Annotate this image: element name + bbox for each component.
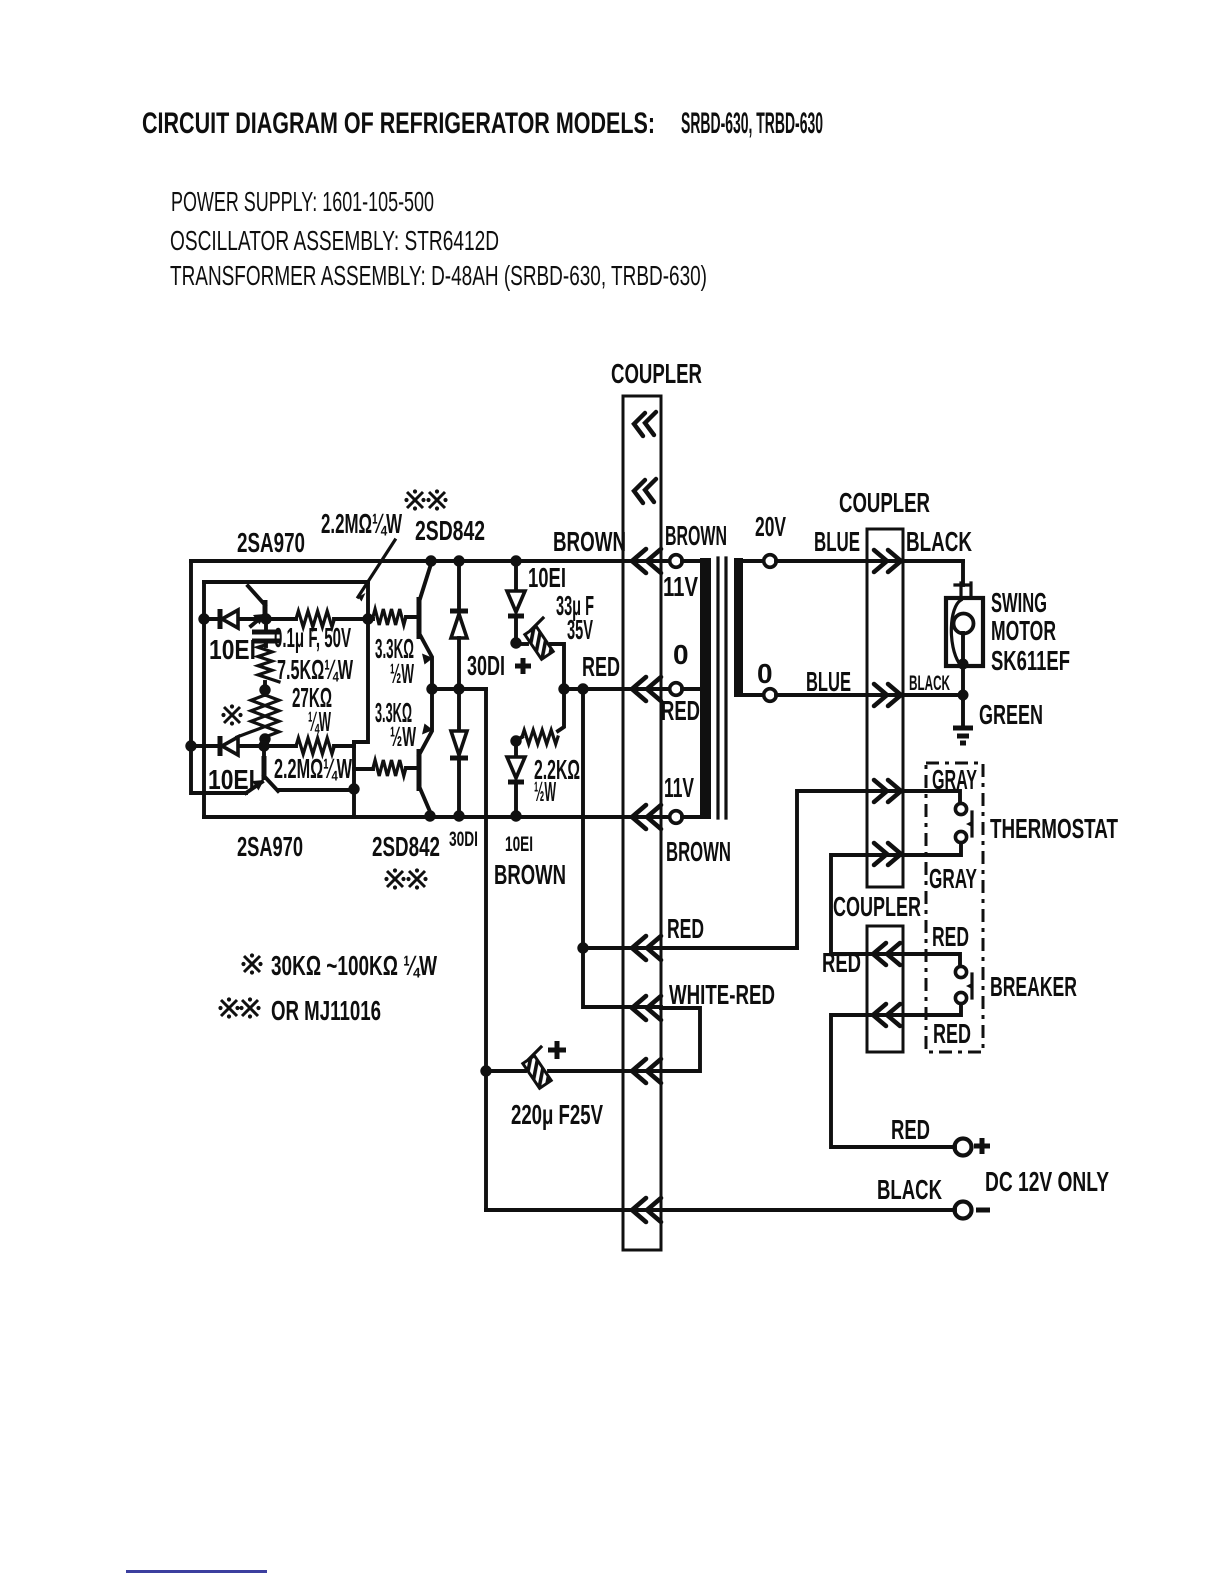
pin circle 0 RED (670, 683, 683, 696)
node dot D5 bottom (453, 683, 464, 694)
wire GRAY bottom (831, 843, 961, 966)
svg-text:RED: RED (933, 1018, 971, 1049)
callout line for 2.2M label (358, 540, 395, 597)
motor M1 body (946, 598, 983, 666)
diode D1 10E1 (upper left) cathode bar (218, 609, 223, 629)
svg-text:RED: RED (667, 913, 704, 944)
transistor Q4 emitter arrow (422, 724, 433, 735)
label kome-kome top (404, 489, 425, 510)
svg-text:BROWN: BROWN (494, 859, 566, 890)
svg-text:10EI: 10EI (505, 833, 533, 856)
transistor Q2 base bar (262, 756, 267, 780)
svg-text:2SA970: 2SA970 (237, 527, 305, 558)
wire C3 to coupler pin (549, 1069, 661, 1073)
svg-text:¼W: ¼W (308, 706, 331, 737)
wire RED lower to coupler (583, 946, 661, 950)
resistor R2 2.2M 1/4W (lower) (296, 738, 334, 754)
wire Q2 collector to x354 (278, 788, 354, 792)
node dot cross vertical (362, 613, 373, 624)
node dots top/bottom rail at Q3/Q4 (425, 555, 436, 566)
node dot collector junction (348, 783, 359, 794)
wire RED mid to coupler (562, 687, 670, 691)
terminal DC plus (955, 1139, 972, 1156)
svg-text:DC 12V ONLY: DC 12V ONLY (985, 1166, 1109, 1197)
wire WHITE-RED U loop right of coupler (661, 1008, 700, 1071)
wire D6 to bottom rail (457, 758, 461, 817)
node dot below 7.5K (259, 684, 270, 695)
resistor R3 7.5K vertical zigzag (258, 645, 279, 682)
svg-text:2.2MΩ¼W: 2.2MΩ¼W (274, 753, 352, 784)
node dot D4 bottom (510, 810, 521, 821)
thermostat S1 contact circles (955, 803, 966, 814)
svg-text:OR MJ11016: OR MJ11016 (271, 995, 381, 1026)
svg-text:CIRCUIT DIAGRAM OF REFRIGERATO: CIRCUIT DIAGRAM OF REFRIGERATOR MODELS: (142, 107, 655, 140)
thermostat actuator (970, 812, 973, 836)
svg-text:GREEN: GREEN (979, 699, 1043, 730)
wire bottom rail (BROWN 11V) (204, 815, 670, 819)
svg-text:TRANSFORMER ASSEMBLY: D-48AH (: TRANSFORMER ASSEMBLY: D-48AH (SRBD-630, … (170, 260, 707, 291)
svg-text:10EI: 10EI (528, 562, 566, 593)
transistor Q2 emitter lead (246, 782, 262, 793)
node dot emitters (426, 683, 437, 694)
node dot D3 top (510, 555, 521, 566)
label kome-kome bottom (384, 868, 405, 889)
svg-text:BROWN: BROWN (666, 836, 731, 867)
motor brush marks (955, 583, 971, 598)
wire R7 node to D4 (514, 741, 518, 757)
wire left outer vertical (191, 561, 246, 793)
wire RED lower right of coupler (661, 946, 797, 950)
svg-text:30DI: 30DI (467, 650, 505, 681)
label kome mid left (221, 704, 242, 725)
svg-text:BROWN: BROWN (665, 520, 727, 551)
node dot C3 left (480, 1065, 491, 1076)
plus sign for C3 (548, 1041, 566, 1059)
svg-text:10EI: 10EI (208, 764, 255, 795)
svg-text:35V: 35V (567, 614, 593, 645)
diode D4 10E1 cathode bar (508, 780, 524, 785)
breaker actuator (970, 974, 973, 998)
svg-text:10EI: 10EI (209, 634, 256, 665)
svg-text:OSCILLATOR ASSEMBLY: STR6412D: OSCILLATOR ASSEMBLY: STR6412D (170, 225, 499, 256)
svg-text:30KΩ ~100KΩ ¼W: 30KΩ ~100KΩ ¼W (271, 950, 437, 981)
svg-text:BLUE: BLUE (806, 666, 851, 697)
chevron arrow pin WHITE-RED (632, 996, 661, 1020)
svg-text:SRBD-630, TRBD-630: SRBD-630, TRBD-630 (681, 107, 823, 140)
capacitor C1 0.1uF 50V (264, 619, 268, 631)
resistor R4 27K parallel pair (251, 695, 279, 737)
ground symbol (953, 728, 973, 743)
coupler J1 pin chevron (unused pin 2) (634, 479, 656, 503)
transistor Q3 emitter lead (419, 633, 432, 689)
diode D1 10E1 triangle (222, 610, 238, 628)
transistor Q4 collector lead (419, 786, 431, 814)
long vertical to battery negative (484, 689, 488, 1210)
svg-text:GRAY: GRAY (932, 764, 977, 795)
transistor Q2 collector lead (264, 776, 278, 791)
pin circle 11V bottom (670, 811, 683, 824)
svg-text:20V: 20V (755, 511, 786, 542)
svg-text:7.5KΩ¼W: 7.5KΩ¼W (277, 654, 353, 685)
wire secondary top 20V (743, 559, 763, 563)
note kome-kome OR MJ11016 (218, 997, 239, 1018)
chevron arrow pin RED bottom (873, 1004, 900, 1026)
svg-text:SWING: SWING (991, 587, 1047, 618)
coupler J2 body (867, 529, 903, 887)
transistor Q2 2SA970 (bottom) base lead (262, 746, 266, 757)
diode D5 30D1 triangle (pointing up) (451, 614, 467, 638)
transistor Q1 emitter lead (251, 616, 263, 626)
terminal DC minus (955, 1202, 972, 1219)
svg-text:COUPLER: COUPLER (611, 358, 702, 389)
diode D3 10E1 cathode bar (508, 614, 524, 619)
capacitor C3 hatch tail (529, 1047, 541, 1059)
capacitor C3 220uF 25V body (523, 1056, 551, 1089)
motor coil arc (951, 600, 961, 663)
svg-text:2SD842: 2SD842 (372, 831, 440, 862)
svg-text:BREAKER: BREAKER (990, 971, 1077, 1002)
note kome 30K-100K (241, 953, 262, 974)
plus sign for C2 (515, 658, 531, 674)
wire top rail to D5 (457, 561, 461, 611)
diode D3 10E1 triangle (pointing down) (507, 591, 525, 612)
capacitor C2 hatch tail (531, 618, 543, 630)
svg-text:MOTOR: MOTOR (991, 615, 1056, 646)
wire RED to DC plus (831, 1004, 961, 1147)
svg-text:RED: RED (891, 1114, 930, 1145)
diode D2 10E1 (lower left) cathode bar (218, 736, 223, 756)
diode D2 10E1 triangle (222, 737, 238, 755)
wire cross-coupling right vertical (354, 582, 368, 742)
diode D6 30D1 cathode bar (450, 756, 468, 761)
node dot left edge upper (198, 613, 209, 624)
svg-text:BLACK: BLACK (877, 1174, 942, 1205)
svg-text:11V: 11V (663, 571, 698, 602)
node dot motor bottom (958, 659, 969, 670)
svg-text:WHITE-RED: WHITE-RED (669, 979, 775, 1010)
coupler J1 pin chevron (unused pin 1) (634, 412, 656, 436)
svg-text:½W: ½W (390, 721, 416, 752)
chevron arrow pin 220uF (632, 1059, 661, 1083)
transistor Q1 emitter arrow (253, 614, 265, 625)
svg-text:BLUE: BLUE (814, 526, 860, 557)
chevron arrow pin BROWN bottom (632, 805, 661, 829)
svg-text:BLACK: BLACK (909, 672, 950, 695)
node dot Q1 base (260, 613, 271, 624)
svg-text:SK611EF: SK611EF (991, 645, 1070, 676)
diode D6 30D1 triangle (pointing down) (451, 731, 467, 755)
svg-text:220μ F25V: 220μ F25V (511, 1099, 603, 1130)
transistor Q1 2SA970 (top) base bar (263, 600, 268, 622)
node dot C2 (510, 637, 521, 648)
svg-text:COUPLER: COUPLER (833, 891, 921, 922)
node dot Q2 base (258, 740, 269, 751)
svg-text:RED: RED (661, 695, 700, 726)
chevron arrow pin BROWN top (632, 549, 661, 573)
transistor Q3 emitter arrow (422, 654, 433, 665)
chevron arrow pin RED top (873, 943, 900, 965)
breaker S2 contact circles (955, 966, 966, 977)
svg-text:BLACK: BLACK (906, 526, 972, 557)
svg-text:11V: 11V (664, 772, 694, 803)
node dot D6 bottom (453, 810, 464, 821)
wire secondary 0 (743, 693, 763, 697)
svg-text:POWER SUPPLY: 1601-105-500: POWER SUPPLY: 1601-105-500 (171, 186, 434, 217)
svg-text:GRAY: GRAY (929, 863, 977, 894)
wire pins to transformer primary (682, 561, 700, 817)
svg-text:RED: RED (932, 921, 969, 952)
wire mid node to D6 (457, 689, 461, 731)
chevron arrow pin RED lower (632, 936, 661, 960)
diode D4 10E1 triangle (pointing down) (507, 757, 525, 778)
wire node to 2.2K (510, 735, 521, 746)
diode D5 30D1 cathode bar (450, 609, 468, 614)
svg-text:0.1μ F, 50V: 0.1μ F, 50V (274, 622, 351, 653)
node dot C2 right (558, 683, 569, 694)
svg-text:RED: RED (822, 947, 861, 978)
node dot left edge lower (185, 740, 196, 751)
wire BLACK bottom (486, 1208, 955, 1212)
svg-text:THERMOSTAT: THERMOSTAT (990, 813, 1118, 844)
svg-text:½W: ½W (534, 776, 556, 807)
svg-text:0: 0 (757, 658, 773, 689)
chevron arrow pin GRAY bottom (874, 843, 901, 865)
vertical RED feed down (583, 689, 661, 1007)
node dot black wire (958, 690, 969, 701)
wire D4 to bottom rail (514, 782, 518, 817)
footer blue line (126, 1570, 267, 1573)
wire D5 to mid node (457, 638, 461, 689)
wire top rail (BROWN 11V) (191, 559, 670, 563)
wire to motor (961, 561, 965, 585)
wire mid-left vertical x354 (352, 742, 356, 817)
svg-text:0: 0 (673, 639, 689, 670)
transformer T1 primary bar (700, 558, 711, 819)
transistor Q3 2SD842 (top) base bar (417, 597, 422, 639)
wire 10E1 lower row (191, 744, 354, 748)
transistor Q2 emitter arrow (252, 780, 264, 791)
node dot D5 top (453, 555, 464, 566)
transistor Q3 collector lead (419, 564, 431, 602)
transistor Q1 collector lead (248, 586, 265, 605)
wire top rail to D3 (514, 561, 518, 591)
wire C2 to mid RED wire (551, 644, 564, 689)
transistor Q4 emitter lead (419, 689, 432, 755)
svg-text:RED: RED (582, 651, 620, 682)
coupler J1 body (623, 396, 661, 1250)
chevron arrow pin BLACK bottom (632, 1198, 661, 1222)
svg-text:2.2MΩ¼W: 2.2MΩ¼W (321, 508, 402, 539)
chevron arrow pin BLUE/BLACK top (874, 550, 901, 572)
wire emitters mid rail (432, 687, 486, 691)
svg-text:½W: ½W (390, 658, 414, 689)
svg-text:2SD842: 2SD842 (415, 515, 485, 546)
coupler J3 body (867, 926, 903, 1052)
chevron arrow pin GRAY top (874, 780, 901, 802)
chevron arrow pin RED mid (632, 677, 661, 701)
dashed enclosure (926, 763, 983, 1052)
svg-text:BROWN: BROWN (553, 526, 626, 557)
svg-text:COUPLER: COUPLER (839, 487, 930, 518)
transistor Q4 2SD842 (bottom) base bar (417, 749, 422, 791)
wire negative rail to C3 (486, 1069, 525, 1073)
transformer T1 secondary bar (734, 558, 743, 697)
wire inner left vertical (202, 582, 206, 817)
chevron arrow pin BLUE/BLACK bottom (874, 684, 901, 706)
resistor R7 2.2K 1/2W (516, 737, 522, 741)
wire GRAY top (797, 791, 960, 948)
svg-text:2SA970: 2SA970 (237, 831, 303, 862)
svg-text:30DI: 30DI (449, 828, 478, 851)
wire to ground (961, 695, 965, 727)
wire node to C2 (516, 642, 527, 646)
transformer core laminations (718, 558, 726, 818)
resistor R6 3.3K 1/2W (lower) (373, 760, 406, 776)
pin circle 11V top (670, 555, 683, 568)
capacitor C2 33uF 35V body (525, 627, 553, 660)
resistor R1 2.2M 1/4W (upper) (296, 611, 334, 627)
resistor R5 3.3K 1/2W (upper) (373, 609, 406, 625)
wire D3 to C2 node (514, 616, 518, 643)
motor rotor circle (954, 614, 974, 634)
wire cross-coupling top edge (204, 580, 368, 584)
wire 10E1 upper row (204, 617, 419, 619)
